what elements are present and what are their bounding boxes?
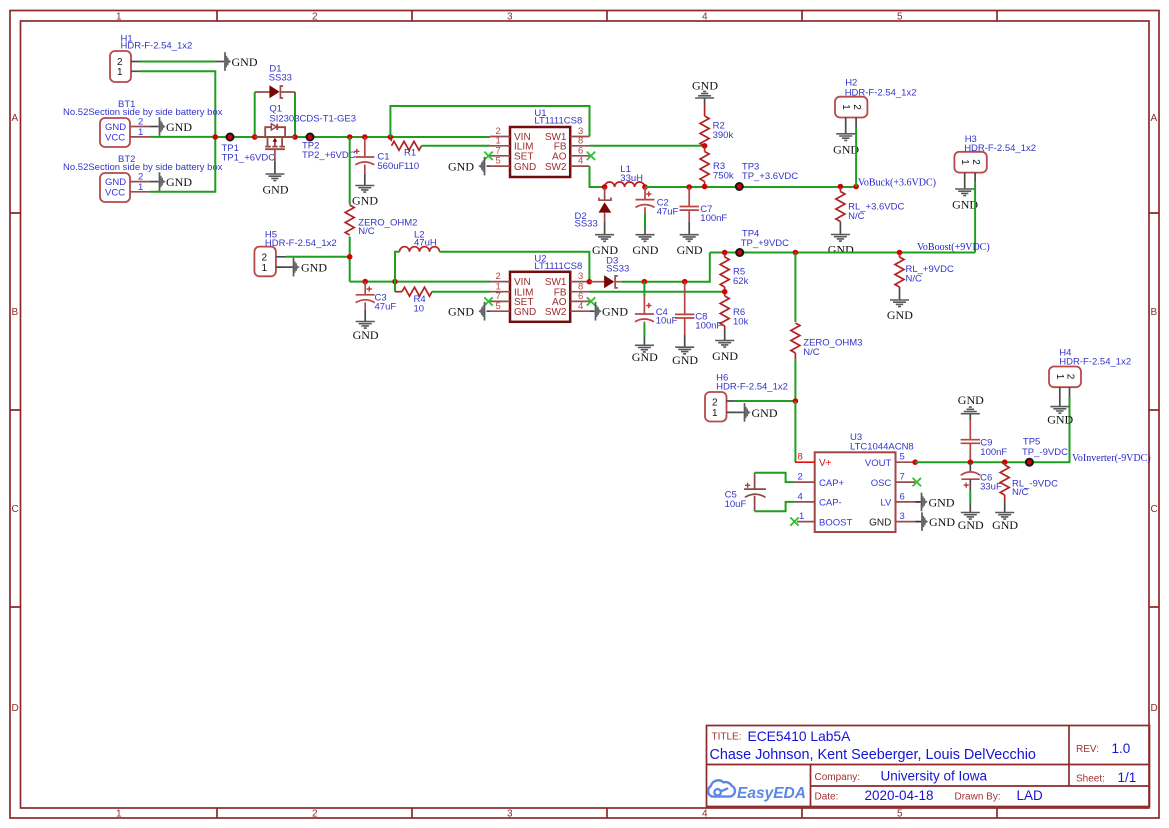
junction U2 SW1 / D3 — [587, 279, 593, 285]
junction ZERO_OHM2 top — [347, 134, 353, 140]
IC U3 — [795, 452, 916, 532]
svg-text:2: 2 — [712, 398, 718, 409]
svg-text:47uF: 47uF — [375, 302, 397, 313]
wire U2 FB to R5/R6 — [590, 291, 725, 293]
wire L2 left vertical — [395, 252, 400, 292]
svg-text:62k: 62k — [733, 276, 749, 287]
connector H6 — [705, 392, 735, 422]
svg-text:N/C: N/C — [803, 347, 820, 358]
svg-text:Sheet:: Sheet: — [1076, 774, 1105, 785]
junction C9/C6 — [968, 459, 974, 465]
capacitor C8 — [675, 282, 694, 348]
svg-text:C: C — [12, 504, 19, 515]
junction D1 left — [252, 134, 258, 140]
svg-text:A: A — [12, 113, 19, 124]
junction RL_+3.6VDC top — [838, 184, 844, 190]
junction L2/R4 — [392, 279, 398, 285]
row tick marks left — [10, 213, 21, 607]
svg-text:SS33: SS33 — [269, 73, 292, 84]
resistor R3 — [700, 146, 709, 187]
svg-text:OSC: OSC — [871, 478, 892, 489]
junction C8 top — [682, 279, 688, 285]
svg-text:560uF: 560uF — [377, 161, 404, 172]
svg-text:University of Iowa: University of Iowa — [881, 769, 988, 784]
svg-text:1: 1 — [712, 408, 718, 419]
svg-text:TP1_+6VDC: TP1_+6VDC — [222, 153, 276, 164]
test point TP2 — [307, 134, 314, 141]
capacitor C2 — [636, 187, 655, 235]
transistor Q1 — [255, 124, 295, 162]
wire D3 to +9V riser — [621, 253, 710, 282]
resistor R4 — [395, 287, 490, 296]
svg-text:1: 1 — [1054, 374, 1065, 380]
svg-text:GND: GND — [632, 243, 658, 257]
junction L1 left / D2 — [602, 184, 608, 190]
no-connect U1 SET — [484, 152, 492, 160]
svg-text:7: 7 — [900, 472, 905, 483]
svg-text:HDR-F-2.54_1x2: HDR-F-2.54_1x2 — [716, 382, 788, 393]
svg-text:100nF: 100nF — [695, 321, 722, 332]
svg-text:4: 4 — [578, 301, 583, 312]
ground RL_-9VDC — [992, 513, 1018, 533]
junction R2/R3/FB — [702, 143, 708, 149]
svg-text:1: 1 — [138, 127, 143, 138]
svg-text:1: 1 — [116, 12, 122, 23]
resistor R5 — [720, 253, 729, 292]
ground flag H5 pin1 — [286, 258, 327, 277]
junction at H1/BT2 vertical — [213, 134, 219, 140]
svg-text:SS33: SS33 — [575, 219, 598, 230]
svg-text:HDR-F-2.54_1x2: HDR-F-2.54_1x2 — [121, 41, 193, 52]
svg-text:GND: GND — [958, 518, 984, 532]
svg-text:2020-04-18: 2020-04-18 — [865, 788, 934, 803]
connector H5 — [254, 247, 286, 277]
svg-text:LAD: LAD — [1017, 788, 1044, 803]
ground C8 — [672, 347, 698, 367]
svg-text:N/C: N/C — [848, 211, 865, 222]
svg-text:HDR-F-2.54_1x2: HDR-F-2.54_1x2 — [845, 88, 917, 99]
row tick marks right — [1149, 213, 1159, 607]
svg-text:VCC: VCC — [105, 188, 125, 199]
svg-text:GND: GND — [514, 307, 536, 318]
svg-text:GND: GND — [672, 353, 698, 367]
svg-text:GND: GND — [869, 517, 891, 528]
svg-text:SS33: SS33 — [606, 264, 629, 275]
resistor ZERO_OHM2 — [345, 137, 354, 257]
svg-text:VOUT: VOUT — [865, 458, 892, 469]
svg-text:GND: GND — [514, 162, 536, 173]
svg-text:1: 1 — [138, 182, 143, 193]
wire H1 pin2 to GND — [140, 61, 216, 63]
junction RL_+9VDC top — [897, 250, 903, 256]
ground C7 — [677, 235, 703, 257]
no-connect U1 AO — [587, 152, 595, 160]
diode D3 — [589, 275, 621, 288]
svg-text:SI2303CDS-T1-GE3: SI2303CDS-T1-GE3 — [269, 114, 356, 125]
svg-text:GND: GND — [752, 406, 778, 420]
svg-text:GND: GND — [828, 243, 854, 257]
svg-text:GND: GND — [692, 79, 718, 93]
svg-text:4: 4 — [578, 156, 583, 167]
svg-text:1.0: 1.0 — [1112, 741, 1131, 756]
svg-text:HDR-F-2.54_1x2: HDR-F-2.54_1x2 — [964, 143, 1036, 154]
svg-text:LT1111CS8: LT1111CS8 — [534, 115, 582, 126]
resistor ZERO_OHM3 — [791, 253, 800, 402]
wire H6 pin2 to V+ node — [735, 400, 796, 402]
capacitor C7 — [680, 187, 699, 235]
svg-text:2: 2 — [312, 809, 318, 820]
svg-text:2: 2 — [496, 271, 501, 282]
junction D1 right — [292, 134, 298, 140]
capacitor C4 — [635, 282, 654, 346]
svg-text:N/C: N/C — [1012, 487, 1029, 498]
wire H1 pin1 down to bus — [140, 71, 216, 135]
svg-text:LT1111CS8: LT1111CS8 — [534, 261, 582, 272]
svg-text:4: 4 — [702, 12, 708, 23]
svg-text:GND: GND — [353, 328, 379, 342]
svg-text:2: 2 — [851, 104, 862, 110]
svg-text:D: D — [12, 703, 19, 714]
svg-text:Date:: Date: — [815, 792, 839, 803]
svg-text:C: C — [1151, 504, 1158, 515]
svg-text:100nF: 100nF — [980, 447, 1007, 458]
junction RL_-9VDC top — [1002, 459, 1008, 465]
ground RL_+3.6VDC — [828, 235, 854, 257]
wire L2 to U2 SW1 loop — [440, 252, 590, 282]
svg-text:GND: GND — [929, 515, 955, 529]
svg-text:2: 2 — [798, 472, 803, 483]
svg-text:GND: GND — [632, 350, 658, 364]
junction R5/R6/FB — [722, 289, 728, 295]
svg-text:GND: GND — [232, 55, 258, 69]
svg-text:5: 5 — [900, 452, 905, 463]
svg-text:10uF: 10uF — [656, 316, 678, 327]
+3.6V output bus — [645, 186, 856, 188]
svg-text:2: 2 — [138, 172, 143, 183]
svg-text:Company:: Company: — [815, 772, 861, 783]
column tick marks bottom — [217, 808, 997, 818]
no-connect U3 OSC — [913, 478, 921, 486]
junction ZERO_OHM3 top — [793, 250, 799, 256]
svg-text:N/C: N/C — [358, 226, 375, 237]
connector H1 — [110, 51, 140, 82]
ground above C9 — [958, 393, 984, 420]
svg-text:GND: GND — [712, 349, 738, 363]
svg-text:GND: GND — [105, 177, 126, 188]
capacitor C3 — [356, 282, 375, 322]
ground flag U3 GND pin3 — [915, 512, 955, 531]
svg-text:GND: GND — [887, 308, 913, 322]
svg-text:GND: GND — [1047, 413, 1073, 427]
svg-text:10k: 10k — [733, 317, 749, 328]
junction U3 VOUT — [912, 459, 918, 465]
connector H3 — [954, 152, 986, 183]
ground R6 — [712, 341, 738, 363]
svg-text:5: 5 — [496, 301, 501, 312]
svg-text:1: 1 — [799, 511, 804, 522]
junction C3 top — [362, 279, 368, 285]
resistor R2 — [700, 105, 709, 147]
ground H3 pin1 — [952, 183, 978, 212]
wire H2 pin2 to bus — [855, 128, 857, 187]
svg-text:1: 1 — [840, 104, 851, 110]
title block outline — [707, 726, 1150, 807]
svg-text:BOOST: BOOST — [819, 517, 852, 528]
junction L1 right / C2 — [642, 184, 648, 190]
svg-text:VCC: VCC — [105, 133, 125, 144]
ground flag BT1 pin2 — [150, 117, 192, 136]
test point TP4 — [736, 249, 743, 256]
svg-text:GND: GND — [166, 120, 192, 134]
inductor L2 — [400, 247, 440, 252]
junction R1/loop — [388, 134, 394, 140]
svg-text:V+: V+ — [819, 458, 832, 469]
svg-text:VoInverter(-9VDC): VoInverter(-9VDC) — [1072, 453, 1151, 464]
svg-text:2: 2 — [312, 12, 318, 23]
svg-text:ECE5410 Lab5A: ECE5410 Lab5A — [748, 729, 852, 744]
VOUT net wire — [915, 398, 1069, 463]
svg-text:LTC1044ACN8: LTC1044ACN8 — [850, 442, 914, 453]
svg-text:Drawn By:: Drawn By: — [955, 792, 1001, 803]
inductor L1 — [605, 182, 645, 187]
svg-text:3: 3 — [900, 511, 905, 522]
svg-text:1: 1 — [117, 67, 123, 78]
no-connect U3 BOOST — [790, 517, 798, 525]
IC U2 — [490, 271, 590, 322]
svg-text:2: 2 — [262, 253, 268, 264]
svg-text:REV:: REV: — [1076, 744, 1099, 755]
ground H4 pin1 — [1047, 397, 1073, 426]
ground H2 pin1 — [833, 128, 859, 157]
svg-text:CAP-: CAP- — [819, 498, 842, 509]
svg-text:33uF: 33uF — [980, 482, 1002, 493]
svg-text:HDR-F-2.54_1x2: HDR-F-2.54_1x2 — [1059, 357, 1131, 368]
svg-text:GND: GND — [301, 261, 327, 275]
svg-text:No.52Section side by side batt: No.52Section side by side battery box — [63, 162, 223, 173]
svg-text:VoBoost(+9VDC): VoBoost(+9VDC) — [917, 242, 990, 253]
ground flag U3 LV — [915, 493, 955, 512]
svg-text:TP5: TP5 — [1023, 437, 1040, 448]
IC U1 — [490, 126, 590, 177]
svg-text:1: 1 — [959, 159, 970, 165]
wire BT2 VCC up to bus — [150, 137, 215, 192]
svg-text:GND: GND — [448, 160, 474, 174]
wire U1 SW1 feedback loop — [390, 106, 589, 137]
svg-text:GND: GND — [352, 194, 378, 208]
no-connect U2 SET — [484, 297, 492, 305]
svg-text:8: 8 — [798, 452, 803, 463]
capacitor C1 — [354, 137, 374, 186]
EasyEDA logo cloud — [708, 780, 735, 796]
svg-text:2: 2 — [138, 117, 143, 128]
svg-text:R1: R1 — [404, 148, 416, 159]
svg-text:GND: GND — [105, 122, 126, 133]
+9V bus wire — [710, 252, 975, 254]
svg-text:4: 4 — [702, 809, 708, 820]
ground Q1 gate — [263, 162, 289, 197]
ground RL_+9VDC — [887, 300, 913, 322]
battery BT2 — [100, 172, 150, 203]
junction C7 top — [686, 184, 692, 190]
wire V+ vertical to U3 — [794, 401, 796, 462]
ground C6 — [958, 513, 984, 533]
test point TP3 — [736, 183, 743, 190]
svg-text:No.52Section side by side batt: No.52Section side by side battery box — [63, 107, 223, 118]
capacitor C9 — [961, 420, 980, 462]
junction C1 top — [362, 134, 368, 140]
svg-text:LV: LV — [880, 498, 892, 509]
junction VoBuck corner — [853, 184, 859, 190]
diode D1 — [255, 85, 295, 98]
ground flag H6 pin1 — [735, 403, 778, 422]
U2 input bus — [350, 281, 490, 283]
ground flag U2 GND pin5 — [448, 302, 490, 321]
svg-text:GND: GND — [992, 518, 1018, 532]
svg-text:750k: 750k — [713, 171, 734, 182]
svg-text:1: 1 — [262, 263, 268, 274]
svg-text:6: 6 — [900, 491, 905, 502]
svg-text:GND: GND — [602, 305, 628, 319]
ground flag U2 SW2 — [590, 302, 629, 321]
svg-text:110: 110 — [404, 161, 419, 172]
svg-text:47uH: 47uH — [414, 237, 437, 248]
resistor R1 — [390, 137, 490, 150]
svg-text:CAP+: CAP+ — [819, 478, 845, 489]
svg-text:390k: 390k — [713, 130, 734, 141]
column tick marks top — [217, 11, 997, 22]
wire U1 SW2 to L1 — [590, 166, 605, 187]
svg-text:A: A — [1151, 113, 1158, 124]
svg-text:1: 1 — [116, 809, 122, 820]
junction H5/ZERO_OHM2 — [347, 254, 353, 260]
svg-text:3: 3 — [507, 809, 513, 820]
svg-text:HDR-F-2.54_1x2: HDR-F-2.54_1x2 — [265, 238, 337, 249]
svg-text:47uF: 47uF — [657, 207, 679, 218]
wire U1 FB to R2/R3 — [590, 145, 705, 147]
svg-text:5: 5 — [897, 12, 903, 23]
svg-text:GND: GND — [448, 305, 474, 319]
wire BT1 VCC to bus — [150, 136, 215, 138]
test point TP1 — [227, 134, 234, 141]
svg-text:TP_+9VDC: TP_+9VDC — [741, 238, 789, 249]
svg-text:SW2: SW2 — [545, 307, 567, 318]
svg-text:TP2_+6VDC: TP2_+6VDC — [302, 150, 356, 161]
svg-text:100nF: 100nF — [700, 213, 727, 224]
resistor R6 — [720, 292, 729, 341]
svg-text:GND: GND — [958, 393, 984, 407]
junction C4 top — [642, 279, 648, 285]
svg-text:Chase Johnson, Kent Seeberger,: Chase Johnson, Kent Seeberger, Louis Del… — [710, 747, 1036, 763]
wire H3 pin2 to +9V bus — [974, 183, 976, 253]
svg-text:SW2: SW2 — [545, 162, 567, 173]
svg-text:VoBuck(+3.6VDC): VoBuck(+3.6VDC) — [858, 178, 936, 189]
svg-text:TP_-9VDC: TP_-9VDC — [1022, 447, 1068, 458]
svg-text:10: 10 — [414, 304, 425, 315]
svg-text:1/1: 1/1 — [1118, 770, 1137, 785]
ground D2 — [592, 235, 618, 257]
diode D1 loop wires — [255, 92, 295, 137]
capacitor C6 — [961, 462, 981, 512]
svg-text:4: 4 — [798, 491, 803, 502]
svg-text:B: B — [1151, 307, 1158, 318]
ground C1 — [352, 186, 378, 208]
svg-text:TITLE:: TITLE: — [712, 732, 742, 743]
svg-text:B: B — [12, 307, 19, 318]
battery BT1 — [100, 117, 150, 148]
ground C4 — [632, 345, 658, 364]
resistor RL_+9VDC — [895, 253, 904, 301]
test point TP5 — [1026, 459, 1033, 466]
main +6V bus wire — [215, 136, 490, 138]
resistor RL_+3.6VDC — [836, 187, 845, 235]
no-connect U2 AO — [587, 297, 595, 305]
svg-text:3: 3 — [578, 271, 583, 282]
ground C3 — [353, 322, 379, 342]
connector H2 — [835, 97, 867, 128]
svg-text:2: 2 — [970, 159, 981, 165]
svg-text:5: 5 — [496, 156, 501, 167]
capacitor C5 — [744, 473, 795, 512]
svg-text:10uF: 10uF — [725, 499, 747, 510]
svg-text:EasyEDA: EasyEDA — [737, 785, 806, 802]
svg-text:N/C: N/C — [906, 274, 923, 285]
ground flag H1 pin2 — [215, 52, 258, 71]
svg-text:2: 2 — [1065, 374, 1076, 380]
ground C2 — [632, 235, 658, 257]
svg-text:GND: GND — [677, 243, 703, 257]
diode D2 — [599, 187, 612, 235]
svg-text:D: D — [1151, 703, 1158, 714]
svg-text:33uH: 33uH — [620, 173, 643, 184]
junction R3 bottom — [702, 184, 708, 190]
svg-text:GND: GND — [166, 175, 192, 189]
resistor RL_-9VDC — [1000, 462, 1009, 512]
junction R5 top — [722, 250, 728, 256]
svg-text:TP_+3.6VDC: TP_+3.6VDC — [742, 171, 798, 182]
connector H4 — [1049, 367, 1081, 398]
ground flag above R2 — [692, 79, 718, 105]
svg-text:GND: GND — [929, 495, 955, 509]
ground flag BT2 pin2 — [150, 172, 192, 191]
svg-text:3: 3 — [507, 12, 513, 23]
svg-text:GND: GND — [263, 183, 289, 197]
svg-text:5: 5 — [897, 809, 903, 820]
junction H6/ZERO_OHM3/V+ — [793, 398, 799, 404]
ground flag U1 GND pin5 — [448, 157, 490, 176]
wire H5 pin2 to junction — [286, 257, 350, 282]
